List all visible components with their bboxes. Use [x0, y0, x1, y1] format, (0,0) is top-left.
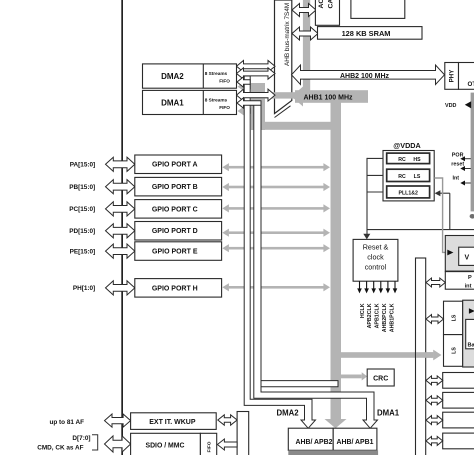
label @VDDA	[393, 141, 420, 150]
block GPIO PORT H	[135, 279, 222, 298]
svg-text:D[7:0]: D[7:0]	[72, 435, 90, 442]
block SDIO / MMC with FIFO	[131, 433, 217, 455]
svg-text:LS: LS	[414, 174, 421, 180]
GPIO PORT C pin arrow + label PC[15:0]	[69, 202, 135, 216]
svg-text:8 Streams: 8 Streams	[205, 98, 228, 103]
svg-text:GPIO PORT A: GPIO PORT A	[152, 162, 198, 169]
svg-text:ACCEL: ACCEL	[318, 0, 325, 9]
arrow: DMA1 peripheral bus head into FIFO	[237, 98, 261, 108]
svg-text:SDIO / MMC: SDIO / MMC	[145, 443, 184, 450]
white bus elbow to AHB1 trunk (third bar)	[259, 381, 339, 387]
block USB OTG PHY	[445, 63, 459, 90]
VDD label and arrow	[445, 101, 471, 109]
clock signal labels HCLK APB2CLK APB1CLK AHB2PCLK AHB1PCLK	[360, 303, 396, 332]
gray bus: main vertical AHB1 trunk with down arrow into AHB/APB bridges	[325, 96, 347, 428]
block clock sources container	[383, 151, 434, 201]
svg-text:up to 81 AF: up to 81 AF	[49, 419, 84, 426]
wires: clock sources to reset & clock control	[363, 158, 383, 240]
pin arrow EXT IT row	[105, 414, 131, 427]
gray AHB1 branch to GPIO PORT D	[222, 229, 330, 237]
svg-text:DMA1: DMA1	[377, 409, 400, 418]
svg-text:FIFO: FIFO	[207, 441, 213, 452]
gray AHB1 branch to GPIO PORT C	[222, 204, 330, 212]
block GPIO PORT E	[135, 242, 222, 260]
svg-text:CRC: CRC	[373, 375, 388, 382]
right column peripheral boxes (cut off) with arrows	[426, 373, 474, 389]
label up to 81 AF	[49, 419, 84, 426]
block CRC	[367, 369, 394, 386]
gray AHB1 branch to GPIO PORT E	[222, 244, 330, 252]
svg-text:int: int	[465, 283, 472, 289]
svg-text:RC: RC	[398, 174, 406, 180]
block USB OTG FS (cut off)	[459, 63, 474, 90]
block RC LS oscillator	[387, 169, 430, 181]
GPIO PORT B pin arrow + label PB[15:0]	[69, 180, 135, 194]
block RTC LS (lower)	[444, 335, 463, 367]
svg-text:PB[15:0]: PB[15:0]	[69, 184, 95, 191]
arrow riser to power interface	[426, 278, 445, 287]
block GPIO PORT D	[135, 222, 222, 241]
svg-text:VDD: VDD	[445, 103, 456, 109]
svg-text:EXT IT. WKUP: EXT IT. WKUP	[149, 419, 196, 426]
gray branch to RTC/LS block (right column)	[338, 350, 441, 360]
svg-text:PHY: PHY	[449, 69, 456, 83]
labels D[7:0] and CMD, CK as AF with bracket	[37, 435, 97, 452]
block AHB/APB1 bridge	[333, 428, 377, 450]
svg-text:reset: reset	[451, 161, 464, 167]
arrow: DMA1 to bus matrix	[237, 89, 276, 101]
arrows: DMA2 to bus matrix (x2)	[237, 61, 276, 80]
svg-text:AHB1 100 MHz: AHB1 100 MHz	[303, 95, 353, 102]
VDD power rail (right edge) with dot	[470, 93, 474, 219]
labels POR reset Int with arrows	[451, 153, 471, 186]
svg-text:CMD, CK as AF: CMD, CK as AF	[37, 445, 83, 452]
GPIO PORT H pin arrow + label PH[1:0]	[73, 281, 135, 295]
label DMA1 (bottom)	[377, 409, 400, 418]
svg-text:PC[15:0]: PC[15:0]	[69, 206, 95, 213]
block power interface (cut off)	[445, 272, 474, 290]
svg-text:AHB1PCLK: AHB1PCLK	[390, 303, 396, 332]
svg-text:PLL1&2: PLL1&2	[399, 191, 418, 197]
arrow riser to watchdog	[426, 315, 444, 324]
svg-text:GPIO PORT D: GPIO PORT D	[152, 228, 198, 235]
block AHB/APB2 bridge	[288, 428, 333, 450]
gray wire: RC LS to backup domain block	[434, 178, 446, 252]
svg-text:PD[15:0]: PD[15:0]	[69, 228, 95, 235]
chip boundary line (left edge of device)	[121, 0, 123, 455]
GPIO PORT D pin arrow + label PD[15:0]	[69, 224, 135, 238]
block ACCEL/CACHE (cut off)	[315, 0, 339, 25]
svg-text:AHB/ APB1: AHB/ APB1	[337, 439, 374, 446]
DMA2 peripheral bus (elbow down to AHB/APB2) with down arrow	[244, 76, 315, 428]
svg-text:AHB/ APB2: AHB/ APB2	[296, 439, 333, 446]
svg-text:GPIO PORT C: GPIO PORT C	[152, 206, 198, 213]
narrow port box right of EXT IT	[237, 412, 249, 455]
svg-text:HCLK: HCLK	[360, 303, 366, 318]
svg-text:LS: LS	[452, 314, 458, 321]
gray bus: left trunk near DMA FIFOs	[251, 83, 339, 130]
DMA1 peripheral bus (elbow down to AHB/APB1) with down arrow	[254, 102, 378, 428]
svg-text:@VDDA: @VDDA	[393, 141, 420, 150]
svg-text:DMA1: DMA1	[161, 98, 184, 107]
svg-text:RC: RC	[398, 157, 406, 163]
block FLASH (top, cut off)	[351, 0, 405, 18]
block DMA2 with 8-stream FIFO	[143, 64, 237, 88]
svg-text:Int: Int	[453, 176, 460, 182]
svg-text:CACHE: CACHE	[327, 0, 334, 9]
svg-text:PH[1:0]: PH[1:0]	[73, 285, 95, 292]
arrow: matrix to ACCEL/CACHE	[292, 4, 316, 17]
label DMA2 (bottom)	[277, 409, 300, 418]
block 128 KB SRAM	[318, 27, 423, 40]
svg-text:Reset &: Reset &	[363, 242, 389, 251]
gray AHB1 branch to GPIO PORT A	[222, 163, 330, 171]
svg-text:GPIO PORT E: GPIO PORT E	[152, 249, 198, 256]
AHB bus-matrix block	[275, 0, 292, 118]
svg-text:AHB bus-matrix 7S4M: AHB bus-matrix 7S4M	[284, 3, 291, 66]
svg-text:128 KB SRAM: 128 KB SRAM	[342, 29, 391, 38]
svg-text:control: control	[365, 262, 387, 271]
block RC HS oscillator	[387, 153, 430, 164]
svg-text:FIFO: FIFO	[219, 79, 230, 84]
arrow: DMA2 peripheral bus head into FIFO	[237, 77, 250, 87]
block GPIO PORT C	[135, 200, 222, 219]
block backup registers (gray, cut off)	[463, 300, 474, 367]
svg-text:AHB2 100 MHz: AHB2 100 MHz	[340, 73, 390, 80]
wire: PLL input from right (arrow into PLL1&2)	[435, 190, 450, 229]
svg-text:APB1CLK: APB1CLK	[375, 303, 381, 328]
svg-text:OT: OT	[468, 81, 474, 88]
arrow: matrix to 128KB SRAM	[292, 27, 318, 40]
arrow port box to SDIO FIFO	[217, 439, 237, 450]
svg-text:PA[15:0]: PA[15:0]	[70, 162, 95, 169]
arrow EXT IT to port box	[218, 415, 237, 425]
svg-text:GPIO PORT H: GPIO PORT H	[152, 285, 198, 292]
svg-text:V: V	[465, 255, 470, 262]
GPIO PORT E pin arrow + label PE[15:0]	[70, 244, 135, 258]
svg-text:PE[15:0]: PE[15:0]	[70, 248, 96, 255]
block PLL1&2	[387, 186, 430, 198]
svg-text:APB2CLK: APB2CLK	[367, 303, 373, 328]
svg-text:POR: POR	[452, 153, 464, 159]
block EXT IT. WKUP	[131, 413, 217, 430]
gray branch to CRC	[336, 372, 367, 380]
APB1 bus riser (tall narrow box)	[416, 258, 426, 455]
svg-text:Ba: Ba	[468, 343, 474, 349]
svg-text:HS: HS	[413, 157, 421, 163]
block GPIO PORT B	[135, 177, 222, 196]
APB gray bus stub below bridges	[288, 450, 378, 455]
svg-text:GPIO PORT B: GPIO PORT B	[152, 184, 198, 191]
svg-text:FIFO: FIFO	[219, 105, 230, 110]
block watchdog LS (upper)	[444, 301, 463, 334]
gray AHB1 branch to GPIO PORT B	[222, 183, 330, 191]
RCC clock output arrows	[357, 281, 397, 293]
gray arrow into DMA1 FIFO	[238, 105, 263, 116]
gray bus: AHB1 100MHz band with left arrowhead	[292, 87, 369, 107]
svg-text:clock: clock	[367, 252, 384, 261]
block DMA1 with 8-stream FIFO	[143, 90, 237, 114]
arrow: AHB2 100MHz bus to USB PHY	[292, 65, 445, 85]
svg-text:DMA2: DMA2	[277, 409, 300, 418]
gray branch re-draw over riser	[416, 350, 441, 360]
svg-text:8 Streams: 8 Streams	[205, 71, 228, 76]
block GPIO PORT A	[135, 155, 222, 174]
gray AHB1 branch to GPIO PORT H	[222, 283, 330, 291]
gray arrow into DMA2 FIFO	[238, 81, 263, 92]
svg-text:DMA2: DMA2	[161, 72, 184, 81]
block VBAT domain (gray, cut off)	[445, 236, 474, 272]
block Reset & clock control (RCC)	[353, 239, 398, 281]
pin arrow SDIO row	[105, 436, 131, 452]
svg-text:AHB2PCLK: AHB2PCLK	[382, 303, 388, 332]
svg-text:P: P	[468, 275, 472, 281]
wire W1: horizontal interconnect above reset block	[367, 229, 474, 231]
svg-text:LS: LS	[452, 347, 458, 354]
GPIO PORT A pin arrow + label PA[15:0]	[70, 157, 135, 171]
AHB1 100 MHz label	[303, 95, 353, 102]
gray bus: CPU trunk above AHB1 band	[303, 0, 310, 96]
